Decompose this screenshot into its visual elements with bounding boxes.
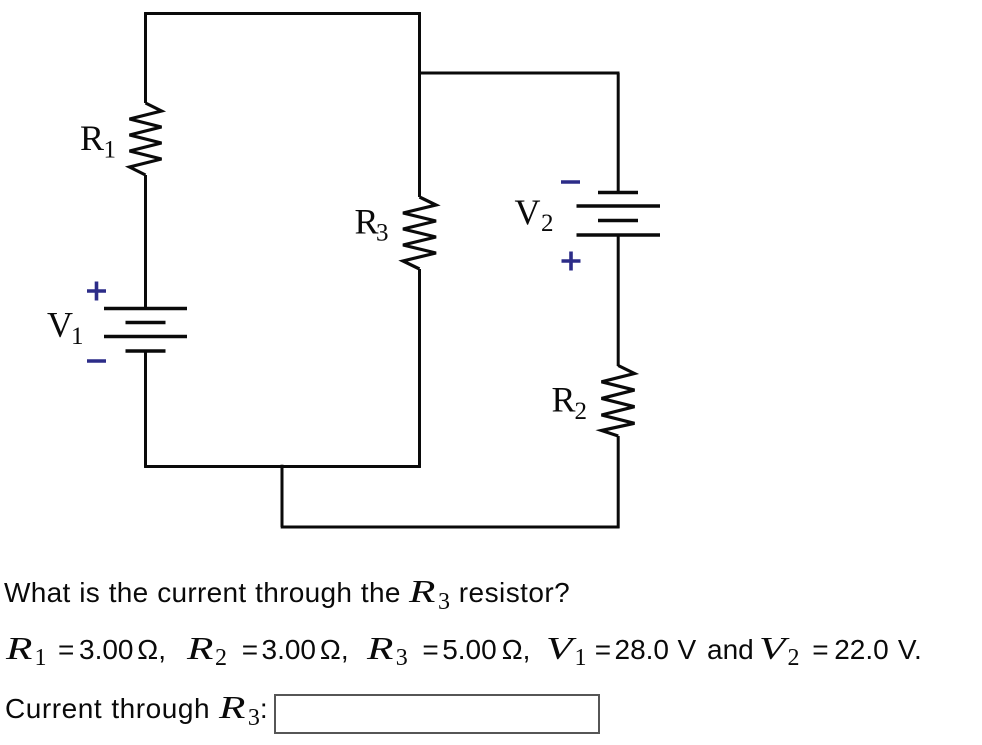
svg-text:2: 2 bbox=[575, 398, 588, 425]
resistor R2 bbox=[602, 366, 635, 437]
svg-text:R: R bbox=[80, 118, 104, 158]
svg-text:1: 1 bbox=[104, 137, 117, 164]
wire right vertical lower bbox=[617, 436, 620, 528]
svg-text:1: 1 bbox=[71, 323, 84, 350]
label V2 bbox=[515, 192, 554, 237]
wire bottom of right loop bbox=[281, 526, 620, 529]
plus sign of V2 bbox=[562, 252, 581, 271]
svg-text:V: V bbox=[515, 192, 541, 232]
resistor R3 bbox=[403, 197, 436, 269]
label R2 bbox=[552, 380, 588, 426]
battery V2 bbox=[577, 193, 661, 236]
label R1 bbox=[80, 118, 116, 164]
wire left vertical upper bbox=[144, 12, 147, 103]
resistor R1 bbox=[130, 103, 162, 175]
wire junction vertical bbox=[281, 465, 284, 527]
svg-text:3: 3 bbox=[376, 220, 389, 247]
wire left vertical middle bbox=[144, 175, 147, 309]
wire top horizontal bbox=[144, 12, 421, 15]
question line 1 bbox=[4, 575, 570, 614]
wire left vertical lower bbox=[144, 351, 147, 468]
given values line 2 bbox=[0, 631, 1, 633]
label R3 bbox=[355, 202, 389, 247]
svg-text:R: R bbox=[355, 202, 379, 242]
answer prompt line 3 bbox=[5, 691, 268, 730]
battery V1 bbox=[104, 309, 187, 352]
svg-text:V: V bbox=[47, 305, 73, 345]
wire right vertical upper bbox=[617, 73, 620, 193]
minus sign of V1 bbox=[87, 359, 106, 363]
svg-text:2: 2 bbox=[541, 210, 554, 237]
svg-text:R: R bbox=[552, 380, 576, 420]
wire right vertical middle bbox=[617, 235, 620, 366]
minus sign of V2 bbox=[561, 180, 580, 184]
wire middle vertical upper bbox=[418, 12, 421, 197]
wire branch horizontal bbox=[420, 72, 620, 75]
label V1 bbox=[47, 305, 84, 351]
answer input box bbox=[274, 694, 600, 734]
wire middle vertical lower bbox=[418, 269, 421, 468]
plus sign of V1 bbox=[87, 282, 106, 301]
wire bottom of left loop bbox=[144, 465, 421, 468]
